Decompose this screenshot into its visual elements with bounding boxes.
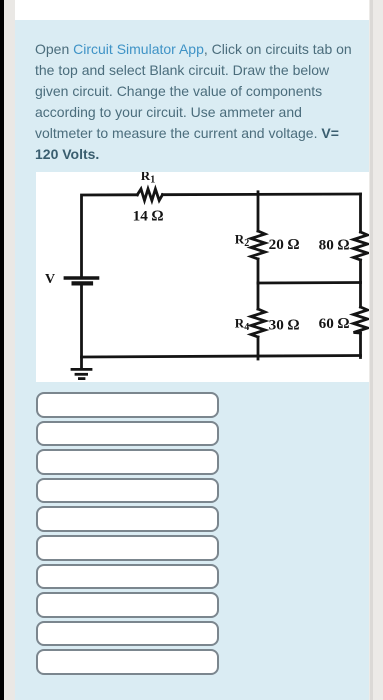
ground [72,369,91,378]
node A wire (top junction to R2) [257,191,260,230]
svg-text:V: V [45,272,55,287]
value 20 ohm [269,236,300,253]
wire 80ohm to middle bus [359,260,362,283]
wire top-right corner to 80ohm resistor [359,194,362,232]
resistor R4 [251,309,265,337]
battery V [65,278,97,283]
wire middle bus to 60ohm resistor [359,282,362,307]
svg-text:R1: R1 [141,172,155,186]
wire 60ohm to bottom bus [359,333,362,358]
wire bottom bus [82,355,361,357]
resistor R2 [251,231,265,259]
resistor 60ohm [354,307,368,333]
label R4 [235,315,249,333]
value 30 ohm [269,316,300,333]
wire middle bus (node B) [258,281,361,284]
value 60 ohm [319,315,350,332]
svg-text:R4: R4 [235,315,249,333]
label R1 [141,168,155,186]
resistor 80ohm [354,232,368,260]
wire node B to R4 [257,283,260,309]
resistor R1 [137,189,162,201]
svg-text:20 Ω: 20 Ω [269,236,300,253]
value 14 ohm [133,207,164,224]
wire top left (battery to R1) [82,194,138,276]
left black strip [0,0,4,700]
wire left bottom (battery to ground node) [80,285,83,368]
wire R2 to node B [257,259,260,283]
svg-text:80 Ω: 80 Ω [319,236,350,253]
wire R4 to bottom bus [257,337,260,359]
label R2 [235,231,249,249]
svg-text:60 Ω: 60 Ω [319,315,350,332]
value 80 ohm [319,236,350,253]
label V [45,272,55,287]
svg-text:30 Ω: 30 Ω [269,316,300,333]
svg-text:14 Ω: 14 Ω [133,207,164,224]
wire top right (R1 to node A to top-right corner) [163,192,361,195]
svg-text:R2: R2 [235,231,249,249]
